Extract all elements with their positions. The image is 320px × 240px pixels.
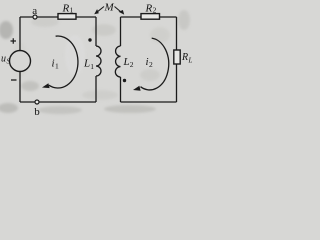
wire top-right horizontal (coil 2 to R2 to right edge) xyxy=(121,16,177,18)
svg-text:b: b xyxy=(34,106,40,118)
wire top-left horizontal (a to R1 to coil top) xyxy=(20,16,96,18)
svg-text:1: 1 xyxy=(70,6,74,15)
node b xyxy=(34,100,40,118)
resistor R1 xyxy=(58,2,76,19)
svg-text:2: 2 xyxy=(153,6,157,15)
current arrow i2 xyxy=(133,38,169,91)
wire right vertical (RL branch) xyxy=(176,17,178,102)
wire bottom-right horizontal xyxy=(121,101,177,103)
voltage source uS xyxy=(1,38,31,80)
mutual inductance M label and arrows xyxy=(94,1,124,14)
svg-text:1: 1 xyxy=(55,62,59,71)
resistor R2 xyxy=(141,2,160,19)
svg-text:M: M xyxy=(104,1,115,13)
svg-text:1: 1 xyxy=(90,62,94,71)
svg-text:L: L xyxy=(123,56,130,68)
svg-text:2: 2 xyxy=(130,60,134,69)
node a xyxy=(32,5,37,19)
polarity dot L2 xyxy=(123,79,126,82)
svg-text:L: L xyxy=(188,57,193,65)
wire bottom-left horizontal xyxy=(20,101,96,103)
svg-text:u: u xyxy=(1,54,6,65)
svg-text:2: 2 xyxy=(149,60,153,69)
wire left vertical (source branch) xyxy=(19,17,21,102)
wire right coil vertical leads xyxy=(120,17,122,102)
svg-text:R: R xyxy=(62,2,70,14)
svg-text:L: L xyxy=(83,58,90,70)
svg-text:S: S xyxy=(7,58,11,66)
svg-text:R: R xyxy=(145,2,153,14)
polarity dot L1 xyxy=(88,38,91,41)
inductor L2 xyxy=(115,46,133,77)
resistor RL xyxy=(174,50,193,65)
current arrow i1 xyxy=(42,36,78,88)
svg-text:a: a xyxy=(32,5,37,17)
svg-text:R: R xyxy=(181,52,188,63)
wire left coil vertical leads xyxy=(95,17,97,102)
inductor L1 xyxy=(83,46,101,76)
